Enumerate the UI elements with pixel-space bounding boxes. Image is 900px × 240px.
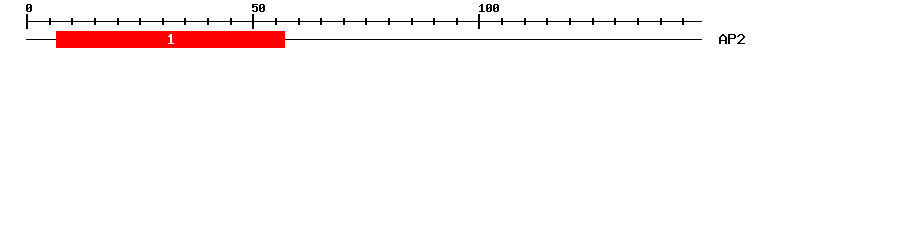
ruler major tick 0 xyxy=(26,14,28,29)
domain number label 1 (white) xyxy=(168,34,174,44)
domain box 1 (red) xyxy=(56,31,285,48)
ruler minor ticks (every 5 residues) xyxy=(49,18,684,25)
ruler tick label 100 xyxy=(479,4,499,12)
ruler tick label 0 xyxy=(26,4,32,12)
ruler major tick 100 xyxy=(478,14,480,29)
ruler major tick 50 xyxy=(252,14,254,29)
ruler tick label 50 xyxy=(252,4,265,12)
ruler line xyxy=(26,21,702,22)
sequence name label AP2 xyxy=(719,34,745,44)
sequence line xyxy=(26,39,702,40)
